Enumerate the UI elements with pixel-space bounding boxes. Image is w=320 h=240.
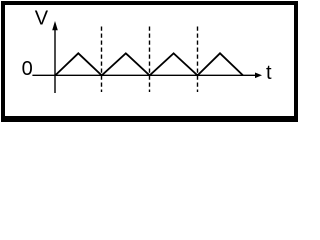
svg-text:V: V [35, 8, 49, 30]
svg-text:0: 0 [22, 58, 33, 80]
svg-text:t: t [266, 62, 272, 84]
